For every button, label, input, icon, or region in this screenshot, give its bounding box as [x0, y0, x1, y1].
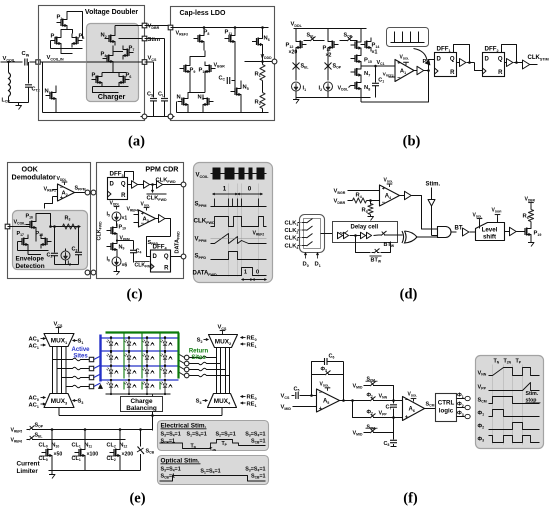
svg-text:Voltage Doubler: Voltage Doubler — [85, 9, 138, 16]
svg-text:(f): (f) — [403, 491, 418, 507]
svg-text:−: − — [319, 390, 322, 396]
svg-text:×200: ×200 — [122, 452, 134, 458]
svg-text:1: 1 — [223, 186, 227, 193]
svg-text:shift: shift — [483, 234, 496, 241]
svg-text:Q: Q — [498, 57, 503, 63]
svg-text:Demodulator: Demodulator — [12, 173, 57, 182]
svg-text:S3=S4=1: S3=S4=1 — [245, 432, 265, 438]
svg-text:+: + — [405, 415, 408, 421]
svg-text:×1: ×1 — [372, 50, 378, 56]
svg-text:R: R — [164, 266, 169, 272]
svg-text:R: R — [498, 70, 503, 76]
svg-text:R: R — [121, 193, 126, 199]
svg-text:(a): (a) — [128, 134, 145, 150]
svg-text:Stim.: Stim. — [426, 182, 441, 188]
svg-text:CLK3: CLK3 — [285, 236, 299, 242]
svg-text:Detection: Detection — [16, 263, 45, 270]
svg-text:Q: Q — [164, 254, 169, 260]
svg-text:×2: ×2 — [326, 53, 332, 59]
svg-text:CLK1: CLK1 — [285, 221, 299, 227]
svg-text:Stim.: Stim. — [526, 391, 539, 397]
svg-text:Q: Q — [121, 182, 126, 188]
svg-text:S1=S4=1: S1=S4=1 — [187, 432, 207, 438]
svg-text:S2=S3=1: S2=S3=1 — [216, 432, 236, 438]
svg-text:0: 0 — [248, 186, 252, 193]
svg-text:+: + — [397, 61, 400, 67]
svg-text:Envelope: Envelope — [16, 256, 45, 263]
svg-text:0: 0 — [256, 270, 259, 276]
svg-text:Charge: Charge — [130, 398, 152, 405]
svg-text:CTRL: CTRL — [438, 400, 455, 407]
svg-text:Q: Q — [450, 57, 455, 63]
svg-text:D: D — [485, 57, 490, 63]
svg-text:−: − — [382, 200, 385, 206]
svg-text:Active: Active — [71, 347, 90, 353]
svg-text:Sites: Sites — [191, 355, 206, 361]
svg-text:×1: ×1 — [122, 216, 128, 222]
svg-text:Delay cell: Delay cell — [351, 225, 379, 231]
svg-text:S1=S4=1: S1=S4=1 — [200, 469, 220, 475]
svg-text:(b): (b) — [403, 134, 421, 150]
svg-text:D: D — [110, 182, 115, 188]
svg-text:PPM CDR: PPM CDR — [145, 165, 179, 174]
svg-text:Limiter: Limiter — [17, 468, 39, 475]
svg-text:CLK2: CLK2 — [285, 228, 299, 234]
svg-text:+: + — [382, 186, 385, 192]
svg-text:D: D — [437, 57, 442, 63]
svg-text:Balancing: Balancing — [126, 405, 157, 412]
svg-text:Return: Return — [189, 349, 209, 355]
svg-text:×6: ×6 — [122, 263, 128, 269]
svg-text:−: − — [405, 398, 408, 404]
svg-text:R: R — [450, 70, 455, 76]
svg-text:Current: Current — [17, 461, 41, 468]
svg-text:Stim: Stim — [148, 37, 161, 43]
svg-text:D: D — [153, 254, 158, 260]
svg-text:−: − — [397, 76, 400, 82]
svg-text:×50: ×50 — [54, 452, 63, 458]
svg-text:S3=S4=1: S3=S4=1 — [161, 432, 181, 438]
svg-text:Charger: Charger — [98, 92, 126, 101]
svg-text:BT: BT — [455, 226, 463, 232]
svg-text:×100: ×100 — [87, 452, 99, 458]
svg-text:logic: logic — [439, 408, 454, 415]
svg-text:Cap-less LDO: Cap-less LDO — [180, 10, 226, 17]
svg-text:Sites: Sites — [73, 354, 88, 360]
svg-text:(c): (c) — [126, 287, 142, 303]
svg-text:CLK4: CLK4 — [285, 244, 299, 250]
svg-text:(d): (d) — [400, 287, 418, 303]
svg-text:(e): (e) — [129, 491, 145, 507]
svg-text:S3=S4=1: S3=S4=1 — [245, 467, 265, 473]
svg-text:S3=S4=1: S3=S4=1 — [161, 467, 181, 473]
svg-text:+: + — [319, 406, 322, 412]
svg-text:Level: Level — [482, 227, 498, 234]
